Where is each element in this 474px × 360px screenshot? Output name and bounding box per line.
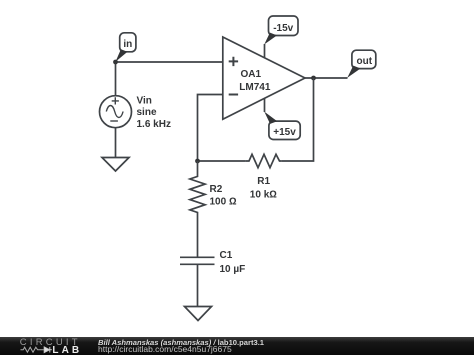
label R1 value bbox=[250, 176, 277, 201]
ground under Vin bbox=[102, 158, 129, 172]
svg-text:LM741: LM741 bbox=[239, 82, 271, 93]
svg-text:in: in bbox=[123, 39, 132, 50]
resistor R1 bbox=[246, 154, 282, 167]
wire: R1 to node A bbox=[198, 160, 246, 162]
logo CIRCUIT text bbox=[20, 337, 81, 348]
wire: C1 to ground bbox=[197, 264, 199, 306]
label Vin value bbox=[137, 95, 171, 130]
svg-text:1.6 kHz: 1.6 kHz bbox=[137, 119, 171, 130]
wire: in node to op-amp non-inverting input bbox=[116, 61, 223, 63]
wire: R2 to C1 bbox=[197, 215, 199, 258]
wire: positive supply stub bbox=[264, 98, 266, 112]
svg-text:R1: R1 bbox=[257, 176, 270, 187]
footer bar bbox=[0, 337, 474, 355]
label out text bbox=[357, 56, 373, 67]
wire: feedback from output down and left bbox=[282, 78, 314, 161]
logo LAB text bbox=[52, 345, 82, 356]
op-amp plus input mark bbox=[229, 57, 238, 66]
flag in pointer bbox=[116, 49, 128, 62]
voltage source minus sign bbox=[110, 120, 118, 122]
node A bbox=[195, 159, 200, 164]
label LM741 bbox=[239, 82, 271, 93]
logo resistor symbol bbox=[21, 347, 44, 352]
voltage source plus sign bbox=[112, 97, 119, 104]
node in bbox=[113, 60, 118, 65]
svg-text:C1: C1 bbox=[220, 250, 233, 261]
svg-text:10 µF: 10 µF bbox=[220, 264, 246, 275]
wire: inverting input to node A bbox=[198, 95, 223, 162]
ground under C1 bbox=[185, 307, 212, 321]
voltage source Vin circle bbox=[100, 96, 132, 128]
capacitor C1 bottom plate bbox=[180, 263, 215, 265]
svg-text:+15v: +15v bbox=[273, 127, 296, 138]
svg-text:LAB: LAB bbox=[52, 345, 82, 355]
svg-text:R2: R2 bbox=[210, 184, 223, 195]
flag +15v box bbox=[269, 121, 300, 139]
label -15v text bbox=[273, 23, 293, 34]
flag out box bbox=[352, 50, 376, 68]
credit line 1 bbox=[98, 339, 264, 347]
svg-text:OA1: OA1 bbox=[241, 69, 262, 80]
svg-text:10 kΩ: 10 kΩ bbox=[250, 190, 277, 201]
voltage source Vin sine mark bbox=[106, 106, 123, 118]
flag in box bbox=[120, 33, 136, 52]
resistor R2 bbox=[190, 161, 205, 215]
credit line 2 bbox=[98, 346, 232, 354]
svg-text:Vin: Vin bbox=[137, 95, 152, 106]
capacitor C1 top plate bbox=[180, 256, 215, 258]
label +15v text bbox=[273, 127, 296, 138]
label R2 value bbox=[210, 184, 237, 208]
label C1 value bbox=[220, 250, 246, 275]
svg-text:-15v: -15v bbox=[273, 23, 293, 34]
svg-text:sine: sine bbox=[137, 107, 157, 118]
flag -15v box bbox=[269, 16, 299, 36]
node out bbox=[311, 76, 316, 81]
flag -15v pointer bbox=[264, 33, 277, 45]
wire: in node down to Vin top bbox=[115, 62, 117, 96]
wire: Vin bottom to ground bbox=[115, 128, 117, 158]
wire: op-amp output to out flag bbox=[305, 77, 348, 79]
logo diode symbol bbox=[44, 347, 52, 353]
flag +15v pointer bbox=[264, 112, 277, 124]
label in text bbox=[123, 39, 132, 50]
op-amp U1 triangle bbox=[223, 37, 305, 119]
svg-text:out: out bbox=[357, 56, 373, 67]
label OA1 bbox=[241, 69, 262, 80]
svg-text:100 Ω: 100 Ω bbox=[210, 197, 237, 208]
op-amp minus input mark bbox=[229, 94, 238, 96]
flag out pointer bbox=[347, 66, 360, 78]
wire: negative supply stub bbox=[264, 44, 266, 58]
